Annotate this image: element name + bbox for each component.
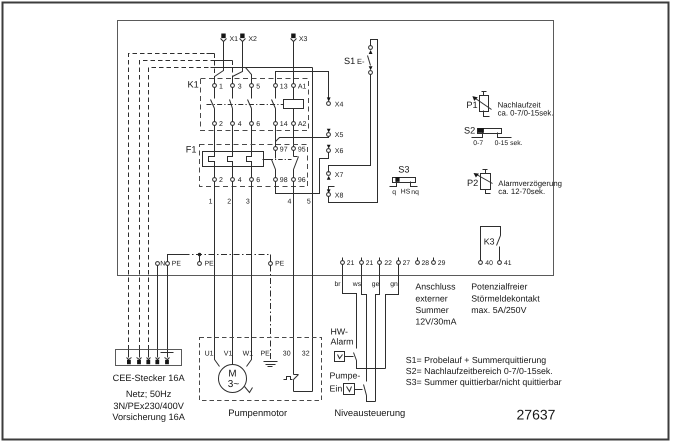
svg-text:2: 2 [219, 177, 223, 184]
wire 5 riser (L3 to motor terminal 32) [312, 68, 314, 392]
svg-text:Netz; 50Hz: Netz; 50Hz [126, 389, 172, 399]
svg-text:br: br [335, 281, 342, 288]
overload relay F1 [186, 144, 308, 186]
svg-text:S2= Nachlaufzeitbereich 0-7/0-: S2= Nachlaufzeitbereich 0-7/0-15sek. [406, 366, 553, 376]
CEE plug pin PE [161, 350, 174, 365]
svg-text:X3: X3 [299, 36, 308, 43]
terminal 21 (br) [341, 258, 355, 268]
F1 heater element 3 [247, 152, 252, 167]
svg-text:Ein: Ein [330, 384, 343, 394]
terminal PE 3 [269, 255, 285, 268]
wire N (mains neutral) [157, 266, 159, 350]
K1 coil A1-A2 [284, 83, 307, 127]
svg-text:30: 30 [283, 351, 291, 358]
svg-text:4: 4 [288, 199, 292, 206]
potentiometer P2 [467, 170, 493, 194]
note buzzer connection [415, 282, 456, 327]
connector X5 [327, 129, 344, 139]
connector X7 [327, 172, 344, 180]
svg-text:K3: K3 [484, 236, 495, 246]
svg-text:4: 4 [238, 177, 242, 184]
svg-text:95: 95 [298, 146, 306, 153]
svg-text:1: 1 [219, 83, 223, 90]
PE wire to motor ground (dash-dot) [270, 266, 272, 362]
wire 4 (96 to motor 30) [293, 182, 295, 375]
control unit enclosure box [118, 21, 554, 276]
K1 pole 5-6 [248, 83, 261, 127]
svg-text:S1= Probelauf + Summerquittier: S1= Probelauf + Summerquittierung [406, 355, 546, 365]
svg-text:X8: X8 [335, 193, 344, 200]
svg-text:41: 41 [504, 260, 512, 267]
F1 aux contact 95-96 [292, 146, 306, 184]
F1 heater element 2 [228, 152, 233, 167]
wire U1 to motor [215, 182, 220, 367]
F1 terminal 6 [250, 167, 261, 185]
svg-text:X6: X6 [335, 148, 344, 155]
svg-text:27637: 27637 [517, 407, 556, 423]
pushbutton S1 [344, 46, 373, 75]
svg-text:ws: ws [352, 281, 362, 288]
svg-text:40: 40 [485, 260, 493, 267]
svg-text:0-15 sek.: 0-15 sek. [495, 140, 523, 147]
motor thermal contact 30-32 [284, 375, 313, 392]
svg-text:PE: PE [205, 260, 215, 267]
svg-text:21: 21 [366, 260, 374, 267]
wire ws to Pumpe-Ein switch [362, 265, 367, 382]
svg-text:Niveausteuerung: Niveausteuerung [334, 407, 405, 418]
wire L2 (dashed mains phase) [140, 61, 233, 350]
connector X6 [327, 145, 344, 155]
terminal 40 [479, 260, 493, 267]
svg-text:nq: nq [411, 189, 419, 196]
svg-text:X2: X2 [248, 36, 257, 43]
svg-text:X4: X4 [335, 101, 344, 108]
svg-text:14: 14 [280, 121, 288, 128]
svg-text:q: q [392, 189, 396, 196]
terminal N [156, 262, 160, 266]
wire X5 to 97/14 node [276, 137, 329, 142]
K1 aux contact 13-14 [272, 83, 288, 127]
svg-text:3: 3 [238, 83, 242, 90]
wire A2 to 95 [293, 126, 295, 147]
HW-Alarm sensor box [331, 327, 354, 362]
svg-text:PE: PE [172, 260, 182, 267]
terminal 28 [416, 258, 430, 268]
svg-text:2: 2 [219, 121, 223, 128]
wire K1 poles to F1 [215, 126, 252, 152]
note fault contact [471, 282, 540, 315]
svg-text:28: 28 [422, 260, 430, 267]
svg-text:N: N [160, 260, 165, 267]
connector X2 [233, 34, 258, 77]
svg-text:98: 98 [280, 177, 288, 184]
F1 trip link (dash-dot) [263, 159, 292, 161]
svg-text:13: 13 [280, 83, 288, 90]
svg-text:Alarm: Alarm [331, 337, 354, 347]
svg-text:6: 6 [256, 177, 260, 184]
motor M1 [219, 365, 253, 393]
CEE plug pin N [155, 350, 159, 365]
terminal 22 (ge) [378, 258, 393, 268]
svg-text:HS: HS [401, 188, 411, 195]
potentiometer P1 [466, 92, 491, 117]
terminal 41 [498, 260, 512, 267]
wire X6 to 98 [276, 153, 329, 194]
svg-text:1: 1 [209, 199, 213, 206]
svg-text:ge: ge [372, 281, 380, 288]
F1 terminal 2 [213, 167, 223, 185]
svg-text:max. 5A/250V: max. 5A/250V [471, 305, 526, 315]
svg-text:Anschluss: Anschluss [415, 282, 456, 292]
terminal PE 1 [166, 255, 184, 268]
pump motor box [200, 338, 322, 401]
svg-text:Pumpenmotor: Pumpenmotor [228, 407, 287, 418]
svg-text:HW-: HW- [331, 327, 348, 337]
CEE plug box [116, 350, 182, 366]
K1 pole 1-2 [211, 83, 224, 127]
wire W1 to motor [247, 182, 252, 367]
wire L3 (dashed mains phase, continues solid to node 5 riser) [149, 68, 313, 350]
svg-text:32: 32 [302, 351, 310, 358]
slide switch S3 [390, 164, 420, 196]
svg-text:PE: PE [261, 351, 271, 358]
svg-text:96: 96 [298, 177, 306, 184]
svg-text:6: 6 [256, 121, 260, 128]
connector X3 [291, 34, 308, 84]
svg-text:Summer: Summer [415, 305, 448, 315]
svg-text:A2: A2 [298, 121, 307, 128]
svg-text:F1: F1 [186, 144, 197, 154]
svg-text:P1: P1 [466, 100, 477, 110]
wire ge return [376, 265, 380, 402]
float switch HW-Alarm [354, 353, 386, 369]
svg-text:12V/30mA: 12V/30mA [415, 317, 456, 327]
Pumpe-Ein sensor box [330, 370, 363, 394]
svg-text:S3: S3 [398, 164, 409, 174]
svg-text:Pumpe-: Pumpe- [330, 370, 361, 380]
wire br to HW-Alarm switch [343, 265, 357, 349]
CEE plug pin L2 [137, 350, 142, 365]
svg-text:Vorsicherung 16A: Vorsicherung 16A [112, 412, 185, 422]
svg-text:Potenzialfreier: Potenzialfreier [471, 282, 527, 292]
svg-text:E-: E- [357, 57, 365, 66]
wire X8 to S1 over-loop [329, 40, 378, 203]
svg-text:97: 97 [280, 146, 288, 153]
svg-text:4: 4 [238, 121, 242, 128]
terminal 29 [432, 258, 446, 268]
svg-text:S2: S2 [464, 125, 475, 135]
terminal 21 (ws) [360, 258, 374, 268]
svg-text:3N/PEx230/400V: 3N/PEx230/400V [113, 401, 184, 411]
K1 pole 3-4 [230, 83, 242, 127]
svg-text:externer: externer [415, 293, 447, 303]
motor PE ground [264, 362, 278, 367]
F1 heater element 1 [209, 152, 215, 167]
terminal PE 2 [198, 256, 215, 268]
wire V1 to motor [232, 182, 234, 365]
svg-text:ca. 12-70sek.: ca. 12-70sek. [498, 187, 545, 196]
svg-text:Störmeldekontakt: Störmeldekontakt [471, 293, 540, 303]
svg-text:0-7: 0-7 [473, 140, 483, 147]
svg-text:W1: W1 [243, 351, 254, 358]
svg-text:V1: V1 [224, 351, 233, 358]
svg-text:PE: PE [275, 260, 285, 267]
svg-text:X1: X1 [230, 36, 239, 43]
wire gn return [386, 265, 399, 369]
svg-text:P2: P2 [467, 178, 478, 188]
connector X1 [215, 34, 239, 77]
svg-text:3~: 3~ [228, 379, 240, 390]
svg-text:5: 5 [256, 83, 260, 90]
svg-text:CEE-Stecker 16A: CEE-Stecker 16A [113, 373, 186, 383]
svg-text:3: 3 [246, 199, 250, 206]
wire L1 (dashed mains phase) [129, 54, 215, 350]
K1 actuator link (dash-dot) [207, 104, 284, 106]
svg-text:X5: X5 [335, 132, 344, 139]
svg-text:27: 27 [403, 260, 411, 267]
svg-text:A1: A1 [298, 83, 307, 90]
CEE plug pin L3 [146, 350, 150, 365]
svg-text:2: 2 [227, 199, 231, 206]
svg-text:21: 21 [347, 260, 355, 267]
wire 14 to 97 [275, 126, 277, 147]
junction PE bus [198, 253, 201, 256]
svg-text:X7: X7 [335, 172, 344, 179]
svg-text:S3= Summer quittierbar/nicht q: S3= Summer quittierbar/nicht quittierbar [406, 377, 562, 387]
contactor K1 [188, 79, 309, 131]
svg-text:ca. 0-7/0-15sek.: ca. 0-7/0-15sek. [498, 109, 554, 118]
F1 aux contact 97-98 [272, 146, 288, 184]
wire 13 to X4 [276, 72, 329, 98]
float switch Pumpe-Ein [364, 385, 376, 402]
F1 terminal 4 [231, 167, 242, 185]
connector X8 [327, 187, 344, 200]
terminal 27 (gn) [397, 258, 411, 268]
svg-text:5: 5 [307, 199, 311, 206]
svg-text:S1: S1 [344, 56, 355, 66]
svg-text:U1: U1 [205, 351, 214, 358]
connector X4 [327, 97, 344, 108]
svg-text:gn: gn [390, 281, 398, 288]
slide switch S2 [464, 125, 523, 147]
wire PE from plug [167, 266, 169, 350]
svg-text:K1: K1 [188, 80, 199, 90]
relay contact K3 [481, 227, 501, 261]
CEE plug pin L1 [127, 350, 132, 365]
wire X7 to S1 [329, 75, 371, 173]
svg-text:29: 29 [438, 260, 446, 267]
PE bus (dash-dot) [184, 254, 271, 256]
svg-text:22: 22 [384, 260, 392, 267]
